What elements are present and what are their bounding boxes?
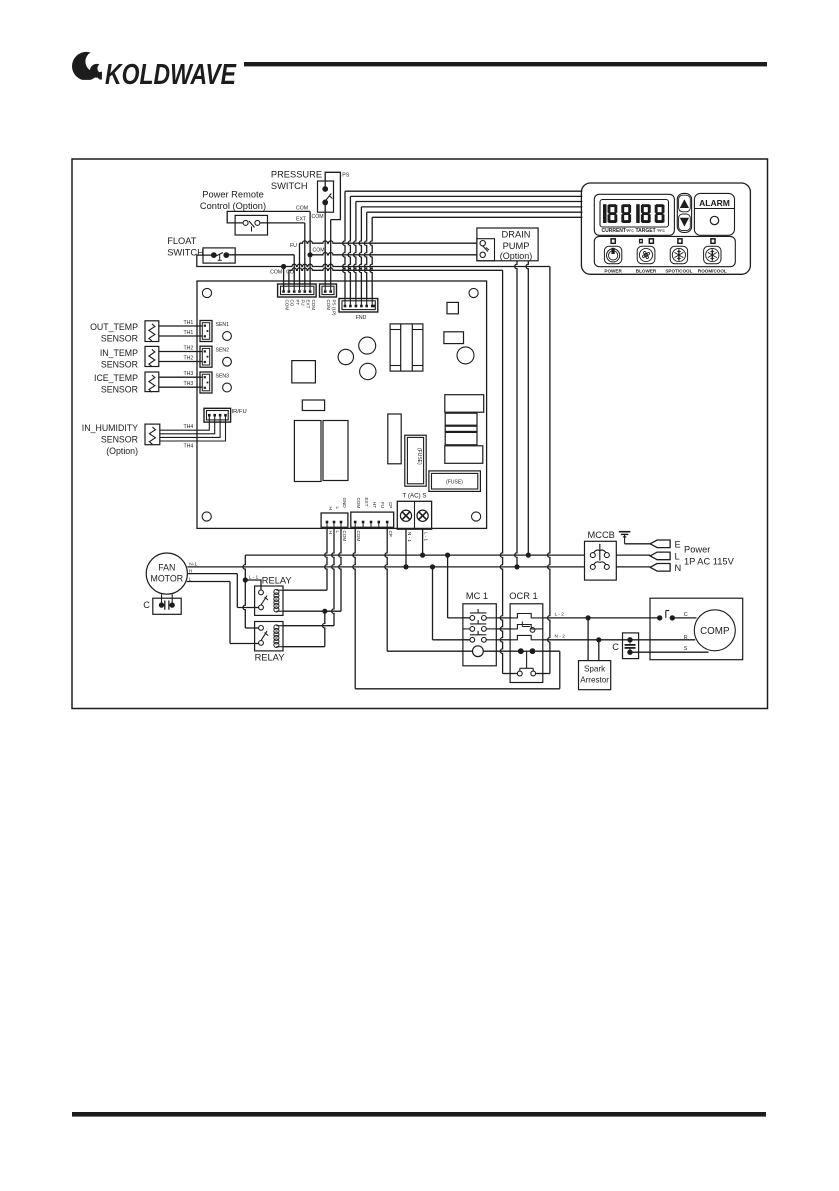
up-down button group [677, 193, 691, 232]
IN_HUMIDITY label [82, 423, 138, 456]
wire COM bus [283, 267, 285, 292]
svg-text:COM: COM [313, 248, 325, 254]
junction COM [281, 264, 286, 269]
svg-text:H: H [328, 507, 333, 510]
wire relay2 coil bottom [283, 611, 325, 647]
junction L-1 [243, 577, 248, 582]
wire COM drop [353, 527, 560, 689]
down button [679, 214, 691, 231]
SEN3 label [216, 374, 230, 380]
connector SEN3 [200, 372, 212, 393]
svg-text:H: H [328, 531, 333, 534]
junction rail MC feed2 [430, 564, 435, 569]
DRAIN PUMP label [500, 230, 533, 261]
PCB mount hole top-left [202, 288, 211, 297]
svg-text:COM: COM [312, 214, 324, 220]
MC 1 label [466, 591, 488, 601]
IN_TEMP label [100, 348, 138, 370]
KOLDWAVE wave logo icon [72, 51, 108, 80]
wire spark 1 [587, 618, 589, 661]
drain pump switch [480, 241, 489, 258]
wire TH4 bundle [160, 422, 226, 441]
breaker MCCB [585, 541, 617, 580]
PCB part rect R1 [444, 332, 464, 344]
wire remote COM [227, 211, 310, 254]
float switch [203, 248, 235, 263]
PCB mount hole top-right [469, 288, 478, 297]
FLOAT SWITCH label [167, 236, 204, 258]
wire FND 2 [348, 196, 582, 298]
spot LED [678, 239, 682, 244]
LCD digits 188188 [603, 204, 665, 223]
spark arrestor box [579, 661, 611, 690]
TH4 labels [184, 424, 194, 450]
svg-text:C: C [684, 612, 688, 618]
fan capacitor label C [143, 600, 150, 610]
connector IR/FU [204, 408, 231, 422]
svg-text:(FUSE): (FUSE) [416, 448, 422, 465]
connector SEN1 [200, 321, 212, 342]
T(AC)S labels bottom [407, 532, 429, 542]
terminal E [650, 539, 681, 549]
svg-text:SPOT/COOL: SPOT/COOL [665, 269, 692, 274]
MCCB label [588, 530, 615, 540]
svg-text:TH3: TH3 [184, 381, 194, 387]
wire screw L-1 down [422, 529, 424, 555]
overload relay OCR1 box [510, 604, 543, 683]
footer rule line [72, 1112, 766, 1117]
wire TH2 pair [159, 352, 203, 362]
ICE_TEMP sensor TH3 [145, 372, 159, 392]
CN-CTRL labels top [356, 498, 393, 509]
wire MCCB L out [616, 555, 650, 567]
wire CO riser [288, 270, 290, 284]
svg-text:EXT: EXT [296, 217, 307, 223]
wire spark 2 [598, 640, 600, 661]
svg-text:N: N [675, 563, 682, 573]
compressor COMP [694, 610, 735, 651]
svg-text:ICE_TEMP: ICE_TEMP [94, 373, 138, 383]
svg-text:TH3: TH3 [184, 371, 194, 377]
CN-FAN labels bottom [328, 531, 347, 542]
svg-text:TH2: TH2 [184, 346, 194, 352]
terminal N [650, 563, 681, 573]
wire FU to drain pump [300, 241, 478, 243]
svg-text:L - 2: L - 2 [555, 612, 565, 618]
FND label [356, 315, 367, 321]
connector CN-FAN 3-pin [321, 513, 348, 527]
wire L-1 to relay1 top [245, 580, 261, 590]
EXT label [296, 217, 307, 223]
fan motor [146, 553, 187, 594]
Spark Arrestor label [580, 665, 609, 685]
wire COM to drain pump [310, 253, 477, 255]
FU label [290, 243, 297, 249]
OUT_TEMP label [90, 322, 138, 344]
alarm indicator [710, 216, 718, 224]
svg-text:FU: FU [290, 243, 297, 249]
svg-text:Control (Option): Control (Option) [200, 201, 266, 211]
pressure switch PS [318, 181, 334, 212]
PCB cap C3 [360, 363, 376, 379]
wire float left COM [197, 255, 284, 266]
svg-text:1P AC 115V: 1P AC 115V [684, 557, 735, 567]
terminal L [650, 551, 680, 561]
svg-text:COM: COM [284, 300, 289, 311]
contactor MC1 [463, 604, 496, 666]
blower LED [649, 239, 653, 244]
wire CO horizontal [289, 268, 503, 270]
svg-text:SEN1: SEN1 [216, 322, 230, 328]
relay RL1 [255, 586, 283, 615]
svg-text:FAN: FAN [158, 563, 175, 573]
logo rule line [244, 62, 767, 66]
cap label C [612, 642, 619, 652]
wire S [630, 651, 709, 653]
wire CN COM pin6 [309, 255, 311, 284]
svg-text:SEN2: SEN2 [216, 348, 230, 354]
wire TH1 pair [159, 326, 203, 336]
SEN2 label [216, 348, 230, 354]
wire MC1 rows to OCR [496, 618, 512, 640]
TH2 labels [184, 346, 194, 362]
svg-text:(Option): (Option) [106, 446, 138, 456]
svg-text:(FUSE): (FUSE) [446, 480, 463, 486]
connector FND 7-pin [339, 299, 378, 313]
COM label remote [296, 205, 308, 211]
PCB heatsink stack [445, 395, 484, 464]
PCB cap C1 [338, 349, 353, 364]
OCR1 test contacts [517, 648, 535, 676]
fan capacitor C [153, 594, 181, 614]
svg-text:ROOM/COOL: ROOM/COOL [698, 269, 727, 274]
KOLDWAVE logo text [105, 59, 237, 91]
svg-text:OUT_TEMP: OUT_TEMP [90, 322, 138, 332]
svg-text:COM: COM [356, 531, 361, 542]
wire rail L-1 top [245, 554, 584, 556]
junction coil bottoms [322, 609, 327, 614]
junction drain L [526, 553, 531, 558]
PCB transformer T1 [390, 324, 423, 371]
PCB mount hole bottom-left [202, 512, 211, 521]
control panel outline [581, 183, 750, 274]
PCB relay RY2 [323, 421, 348, 481]
junction cap R [627, 637, 632, 642]
alarm button box [694, 193, 734, 235]
svg-text:Arrestor: Arrestor [580, 676, 609, 685]
svg-text:TH1: TH1 [184, 320, 194, 326]
svg-text:MCCB: MCCB [588, 530, 615, 540]
svg-text:CP: CP [388, 531, 393, 537]
junction cap S [627, 650, 632, 655]
junction remote COM [308, 252, 313, 257]
PCB part small square top [447, 302, 458, 313]
junction drain N [514, 564, 519, 569]
power button [604, 246, 621, 263]
svg-text:MC 1: MC 1 [466, 591, 488, 601]
up button [679, 195, 691, 212]
TH1 labels [184, 320, 194, 336]
wire N-2 [543, 639, 630, 641]
fan terminal labels [189, 561, 198, 582]
PCB part tall rect [388, 414, 401, 464]
wire remote EXT [260, 223, 305, 284]
junction rail L-1 screw [420, 553, 425, 558]
Power label [684, 545, 735, 567]
room-cool button [704, 246, 721, 263]
svg-text:COM: COM [342, 531, 347, 542]
diagram border frame [72, 159, 768, 709]
ALARM label [699, 198, 730, 208]
svg-text:OCR 1: OCR 1 [509, 591, 537, 601]
wire TH3 pair [159, 377, 203, 387]
svg-text:FT: FT [295, 300, 300, 306]
relay RL2 [255, 622, 283, 651]
svg-text:L: L [335, 531, 340, 534]
svg-text:CO: CO [290, 300, 295, 307]
MC1 coil [473, 646, 484, 657]
svg-text:COM: COM [311, 300, 316, 311]
svg-text:Power: Power [684, 545, 710, 555]
wire B down to OCR [535, 267, 550, 674]
COM labels at junction [270, 270, 294, 276]
junction rail MC feed [445, 553, 450, 558]
wire L-2 [543, 617, 660, 619]
room LED [711, 239, 715, 244]
wire relay1 coil bottom COM [283, 527, 341, 611]
RELAY label 2 [255, 653, 285, 663]
LCD area [600, 200, 669, 228]
svg-text:PS (1P): PS (1P) [331, 300, 336, 317]
hole near SEN1 [223, 332, 232, 341]
wire float right [229, 255, 294, 284]
svg-text:FU: FU [380, 502, 385, 508]
svg-text:FU: FU [300, 300, 305, 306]
DRAIN PUMP box [477, 228, 538, 261]
PCB part small rect [302, 400, 324, 411]
PS COM label [312, 214, 324, 220]
hole near SEN2 [223, 357, 232, 366]
buttons row box [594, 236, 735, 266]
PS label [342, 173, 349, 179]
wire fan N-1 rail [187, 566, 584, 568]
spot-cool button [670, 246, 687, 263]
svg-text:IN_TEMP: IN_TEMP [100, 348, 138, 358]
svg-text:Spark: Spark [584, 665, 606, 674]
svg-text:SWITCH: SWITCH [271, 181, 308, 191]
svg-text:L: L [335, 507, 340, 510]
thermal protector [657, 611, 675, 621]
wire ground to E [625, 543, 651, 545]
wire protector to C [672, 617, 696, 619]
wire A down to OCR [500, 270, 517, 673]
PCB board outline [197, 281, 487, 528]
svg-text:T (AC) S: T (AC) S [403, 493, 427, 500]
svg-text:IR/FU: IR/FU [232, 409, 247, 415]
svg-text:GND: GND [342, 498, 347, 509]
svg-text:KOLDWAVE: KOLDWAVE [105, 59, 237, 91]
wire CP drop [385, 527, 473, 651]
wire screw N-1 down [405, 529, 407, 567]
ICE_TEMP label [94, 373, 138, 395]
PCB fuse F1 vertical [405, 435, 426, 486]
junction spark N [596, 637, 601, 642]
connector PS(1P) 2-pin [320, 284, 337, 297]
PCB cap C4 [457, 347, 474, 364]
wire relay2 coil top to L [283, 527, 334, 625]
wire drain pump down 1 [515, 261, 517, 567]
svg-text:SENSOR: SENSOR [101, 435, 138, 445]
wire FND 4 [359, 207, 582, 299]
svg-text:HT: HT [372, 502, 377, 508]
wire L-1 riser [243, 555, 259, 628]
svg-text:DRAIN: DRAIN [502, 230, 531, 240]
wire fan L [187, 582, 259, 644]
blower button [637, 246, 655, 263]
svg-text:COM: COM [326, 300, 331, 311]
connector CN1 6-pin [278, 284, 317, 297]
wire PS loop [325, 172, 340, 284]
svg-text:SWITCH: SWITCH [167, 248, 204, 258]
svg-text:PRESSURE: PRESSURE [271, 170, 322, 180]
wire FU [299, 243, 301, 284]
svg-text:ALARM: ALARM [699, 198, 730, 208]
wire fan H [187, 574, 258, 608]
PCB fuse F2 horizontal [429, 471, 481, 492]
wire MC1 row1 feed [448, 555, 470, 618]
wire drain pump down 2 [526, 261, 528, 555]
svg-text:SENSOR: SENSOR [101, 334, 138, 344]
svg-text:POWER: POWER [604, 269, 622, 274]
display window [594, 194, 674, 235]
N-2 label [555, 633, 566, 639]
svg-text:COMP: COMP [700, 626, 730, 637]
wire COM bus right segment [284, 264, 550, 266]
svg-text:TH4: TH4 [184, 424, 194, 430]
button labels [604, 269, 726, 274]
svg-text:FND: FND [356, 315, 367, 321]
power remote switch [235, 215, 267, 235]
svg-text:(Option): (Option) [500, 251, 533, 261]
svg-text:RELAY: RELAY [262, 576, 292, 586]
svg-text:EXT: EXT [306, 300, 311, 309]
svg-text:SEN3: SEN3 [216, 374, 230, 380]
PCB relay RY1 [294, 421, 321, 482]
junction spark L [586, 615, 591, 620]
wire FND 5 [364, 212, 582, 298]
IR/FU label [232, 409, 247, 415]
connector CN-CTRL 5-pin [351, 512, 394, 527]
wire MC1 row3 feed [433, 567, 471, 640]
wire MC1 coil to OCR [483, 650, 520, 652]
IN_TEMP sensor TH2 [145, 346, 159, 366]
svg-text:L - 1: L - 1 [424, 532, 429, 541]
svg-text:CP: CP [388, 502, 393, 508]
svg-text:C: C [612, 642, 619, 652]
svg-text:PS: PS [342, 173, 349, 179]
compressor box [650, 598, 743, 660]
wire FND 6 [370, 217, 583, 298]
svg-text:TARGET °F/°C: TARGET °F/°C [636, 228, 666, 234]
svg-text:C: C [143, 600, 150, 610]
blower LED small [640, 239, 643, 242]
svg-text:SENSOR: SENSOR [101, 359, 138, 369]
TH3 labels [184, 371, 194, 387]
svg-text:TH2: TH2 [184, 356, 194, 362]
junction rail N-1 screw [403, 564, 408, 569]
SEN1 label [216, 322, 230, 328]
terminal T(AC)S label [403, 493, 427, 500]
L-2 label [555, 612, 565, 618]
svg-text:L: L [675, 551, 680, 561]
wire FND 1 [343, 191, 583, 298]
svg-text:MOTOR: MOTOR [151, 574, 184, 584]
svg-text:S: S [684, 646, 688, 652]
label CURRENT [602, 228, 635, 234]
svg-text:EXT: EXT [364, 498, 369, 507]
ground symbol [619, 532, 631, 544]
PCB part square U1 [292, 361, 316, 383]
svg-text:E: E [675, 539, 681, 549]
wire N-2 to R [630, 639, 695, 641]
power LED [611, 239, 615, 244]
terminal labels CRS [684, 612, 688, 652]
OCR 1 label [509, 591, 537, 601]
svg-text:BLOWER: BLOWER [636, 269, 657, 274]
PCB mount hole bottom-right [472, 512, 481, 521]
svg-text:RELAY: RELAY [255, 653, 285, 663]
svg-text:TH4: TH4 [184, 444, 194, 450]
RELAY label 1 [262, 576, 292, 586]
svg-text:TH1: TH1 [184, 330, 194, 336]
svg-text:PUMP: PUMP [503, 241, 530, 251]
wire PS COM [324, 202, 326, 284]
COM label at drain branch [313, 248, 325, 254]
svg-text:N - 1: N - 1 [407, 532, 412, 542]
run capacitor C2 [623, 633, 639, 659]
svg-text:IN_HUMIDITY: IN_HUMIDITY [82, 423, 138, 433]
PCB cap C2 [359, 337, 376, 354]
terminal block T(AC)S [397, 501, 431, 529]
CN-FAN labels top [328, 498, 347, 510]
CN1 pin labels [284, 300, 316, 311]
svg-text:N - 2: N - 2 [555, 633, 566, 639]
label TARGET [636, 228, 666, 234]
svg-text:SENSOR: SENSOR [101, 385, 138, 395]
L-1 node label [249, 575, 259, 581]
svg-text:COM: COM [356, 498, 361, 509]
wire FND 3 [354, 202, 583, 299]
connector SEN2 [200, 346, 212, 367]
svg-text:FLOAT: FLOAT [167, 236, 197, 246]
svg-text:COM: COM [296, 205, 308, 211]
CN-CTRL labels bottom [356, 531, 393, 542]
svg-text:Power Remote: Power Remote [202, 190, 264, 200]
hole near SEN3 [223, 383, 232, 392]
PS connector pin labels [326, 300, 337, 317]
Power Remote label [200, 190, 266, 212]
IN_HUMIDITY sensor TH4 [145, 424, 160, 445]
OUT_TEMP sensor TH1 [145, 321, 159, 342]
PRESSURE SWITCH label [271, 170, 322, 192]
OCR1 bimetal elements [512, 614, 543, 640]
svg-text:COM: COM [270, 270, 282, 276]
wire OCR right dot out [535, 651, 560, 689]
svg-text:CURRENT°F/°C: CURRENT°F/°C [602, 228, 635, 234]
wire relay1 coil top to H [283, 527, 327, 590]
